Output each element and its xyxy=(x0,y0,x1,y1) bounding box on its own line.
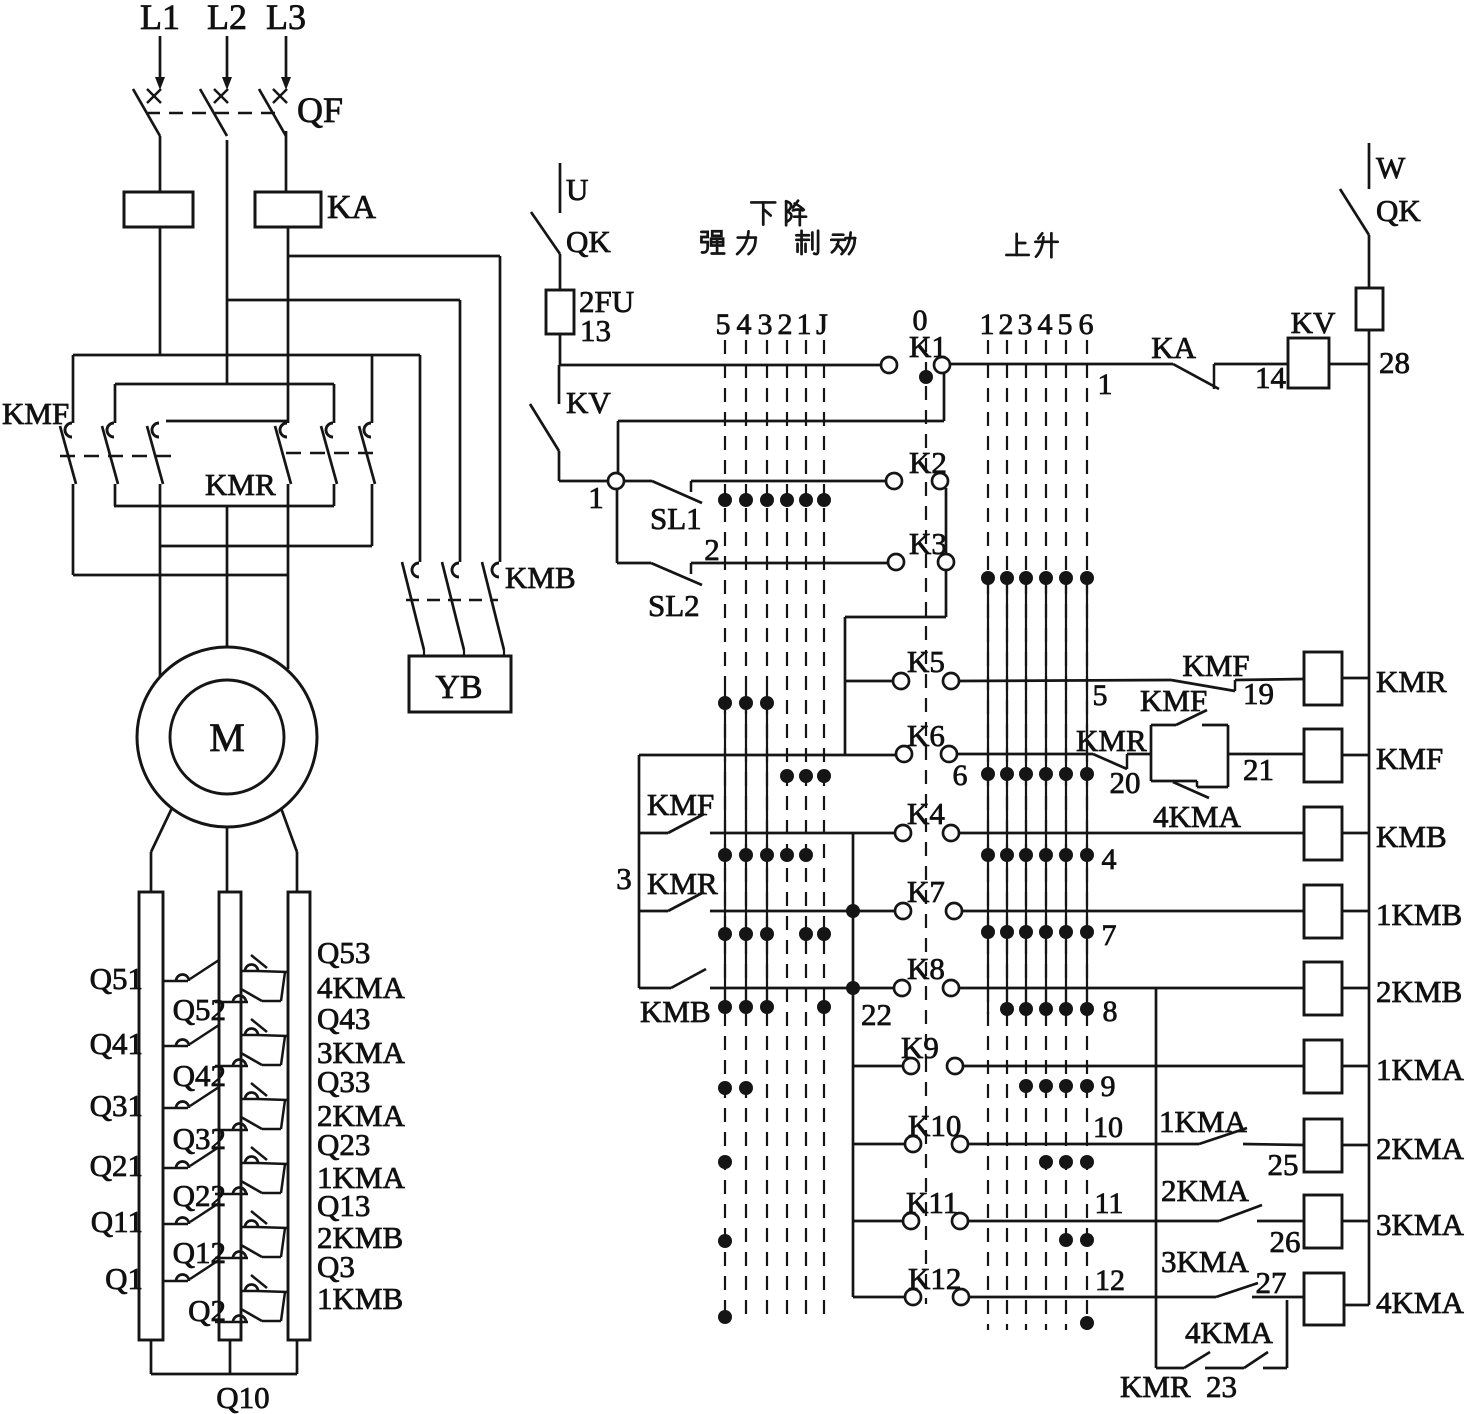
cam closed mark col 2 y=776 xyxy=(780,769,794,783)
wire K2 to K3 xyxy=(945,488,948,555)
cam closed mark col 1 y=776 xyxy=(799,769,813,783)
cam closed mark col 3 y=1007 xyxy=(760,1000,774,1014)
header 制动 (brake) xyxy=(796,231,818,254)
wire solid segment col x=1007 xyxy=(1006,572,1008,1014)
relay coil KMR xyxy=(1304,652,1342,705)
wire to K7 xyxy=(710,910,896,913)
wire SL2 to K3 xyxy=(691,562,889,565)
net W terminal xyxy=(1368,143,1371,189)
cam closed mark col J y=776 xyxy=(817,769,831,783)
cam closed mark col 3 y=855 xyxy=(760,848,774,862)
KMB linkage dashed xyxy=(406,599,498,602)
wire supply drop x=227 xyxy=(226,36,229,86)
cam closed mark col 6 y=1323 xyxy=(1080,1316,1094,1330)
tap switch Q43 xyxy=(242,1034,257,1037)
svg-text:KV: KV xyxy=(566,385,611,420)
cam closed mark col 3 y=703 xyxy=(760,696,774,710)
svg-text:KA: KA xyxy=(327,189,377,226)
tap switch Q41 xyxy=(163,1045,188,1048)
cam closed mark col 4 y=1086 xyxy=(1039,1079,1053,1093)
tap switch Q11 xyxy=(163,1223,188,1226)
svg-text:KMF: KMF xyxy=(1182,648,1249,683)
contactor KMF pole 2 xyxy=(114,384,117,423)
svg-text:KV: KV xyxy=(1291,305,1336,340)
svg-text:M: M xyxy=(209,715,245,760)
resistor bank element R-right xyxy=(288,892,310,1340)
svg-text:Q31: Q31 xyxy=(90,1088,143,1123)
wire jog left xyxy=(845,616,946,619)
svg-text:2KMB: 2KMB xyxy=(317,1220,403,1255)
svg-text:K1: K1 xyxy=(909,329,947,364)
svg-text:K9: K9 xyxy=(901,1030,939,1065)
controller contact K12 xyxy=(905,1289,921,1305)
svg-text:4: 4 xyxy=(1102,843,1117,876)
cam closed mark col 1 y=500 xyxy=(799,493,813,507)
svg-text:12: 12 xyxy=(1095,1264,1125,1297)
cam closed mark col 6 y=1086 xyxy=(1080,1079,1094,1093)
cam closed mark col 4 y=1162 xyxy=(1039,1155,1053,1169)
svg-text:10: 10 xyxy=(1093,1111,1123,1144)
wire K1 to node 1 c xyxy=(617,421,620,474)
tap switch Q53 xyxy=(242,970,257,973)
limit switch SL1 xyxy=(652,481,702,503)
wire 27 down xyxy=(1286,1300,1289,1368)
wire to K9 xyxy=(853,1065,904,1068)
cam closed mark col 3 y=1009 xyxy=(1019,1002,1033,1016)
wire K1 to node 1 b xyxy=(618,420,944,423)
svg-text:4KMA: 4KMA xyxy=(1376,1285,1464,1320)
cam closed mark col 5 y=1007 xyxy=(718,1000,732,1014)
svg-text:1: 1 xyxy=(588,480,604,515)
node 1 xyxy=(608,473,624,489)
wire branch to KMB right xyxy=(288,255,500,258)
svg-text:1KMA: 1KMA xyxy=(1159,1104,1247,1139)
cam closed mark col 4 y=703 xyxy=(739,696,753,710)
tap switch Q3 xyxy=(242,1290,257,1293)
svg-text:4: 4 xyxy=(1038,308,1053,341)
svg-text:1KMB: 1KMB xyxy=(1376,897,1462,932)
wire K1 row right (wire 1) xyxy=(949,363,1173,366)
svg-text:Q41: Q41 xyxy=(90,1026,143,1061)
header 强力 (strong) xyxy=(701,231,724,253)
wire down-branch bus xyxy=(1155,988,1158,1368)
cam closed mark col 2 y=855 xyxy=(780,848,794,862)
svg-text:4: 4 xyxy=(737,308,752,341)
contactor KMR pole 1 xyxy=(280,423,287,437)
wire K4 to KMB coil (wire 4) xyxy=(958,832,1304,835)
wire to K11 xyxy=(853,1220,904,1223)
svg-text:20: 20 xyxy=(1110,765,1141,800)
svg-text:3: 3 xyxy=(1018,308,1033,341)
cam closed mark col 3 y=1086 xyxy=(1019,1079,1033,1093)
tap switch Q13 xyxy=(242,1226,257,1229)
relay coil 1KMB xyxy=(1304,885,1342,938)
wire bottom bus Q10 xyxy=(151,1373,297,1376)
cam closed mark col 4 y=774 xyxy=(1039,767,1053,781)
svg-text:4KMA: 4KMA xyxy=(1185,1315,1273,1350)
motor M xyxy=(137,647,317,827)
wire solid segment col x=746 xyxy=(745,690,747,1014)
wire K5 to KMF interlock (wire 5) xyxy=(958,680,1171,681)
cam closed mark col J y=500 xyxy=(817,493,831,507)
relay coil 2KMB xyxy=(1304,962,1342,1015)
KMR linkage dashed xyxy=(286,452,380,455)
svg-text:23: 23 xyxy=(1206,1369,1237,1404)
svg-text:K7: K7 xyxy=(907,874,945,909)
svg-text:1KMB: 1KMB xyxy=(317,1281,403,1316)
svg-text:3: 3 xyxy=(616,861,632,896)
wire right bus xyxy=(1368,330,1371,1305)
svg-text:8: 8 xyxy=(1103,995,1118,1028)
controller contact K3 xyxy=(888,554,904,570)
contactor KMR pole 2 xyxy=(333,384,336,423)
cam closed mark col 2 y=1009 xyxy=(1000,1002,1014,1016)
cam closed mark col 4 y=855 xyxy=(1039,848,1053,862)
tap switch Q12 / contact 2KMB xyxy=(215,1257,248,1260)
cam closed mark col 5 y=1241 xyxy=(718,1234,732,1248)
cam closed mark col J y=934 xyxy=(817,927,831,941)
cam closed mark col 5 y=1009 xyxy=(1059,1002,1073,1016)
svg-text:K2: K2 xyxy=(909,445,947,480)
cam closed mark col 5 y=934 xyxy=(718,927,732,941)
svg-text:1KMA: 1KMA xyxy=(1376,1052,1464,1087)
cam closed mark col 6 y=1240 xyxy=(1080,1233,1094,1247)
svg-text:KMF: KMF xyxy=(2,396,69,431)
cam closed mark col 6 y=1009 xyxy=(1080,1002,1094,1016)
svg-text:11: 11 xyxy=(1095,1187,1124,1220)
wire L1 to KMF top bar xyxy=(159,227,162,355)
controller contact K6 xyxy=(896,746,912,762)
relay coil 1KMA xyxy=(1304,1040,1342,1093)
wire K10 row xyxy=(967,1143,1199,1146)
cam closed mark col 6 y=855 xyxy=(1080,848,1094,862)
svg-text:L2: L2 xyxy=(207,0,247,37)
cam closed mark col 1 y=578 xyxy=(981,571,995,585)
cam closed mark col J y=1007 xyxy=(817,1000,831,1014)
wire node1 to SL1 xyxy=(623,480,652,483)
tap switch Q51 xyxy=(163,980,188,983)
overload heater element left xyxy=(124,192,193,227)
wire motor to R3 xyxy=(281,808,297,852)
svg-text:Q52: Q52 xyxy=(173,992,226,1027)
wire to K10 xyxy=(853,1143,906,1146)
tap switch Q52 / contact 4KMA xyxy=(215,1001,248,1004)
svg-text:Q32: Q32 xyxy=(173,1121,226,1156)
tap switch Q2 / contact 1KMB xyxy=(215,1321,248,1324)
svg-text:Q43: Q43 xyxy=(317,1001,370,1036)
wire solid segment col x=1026 xyxy=(1025,572,1027,1014)
tap switch Q23 xyxy=(242,1162,257,1165)
controller contact K4 xyxy=(895,825,911,841)
svg-text:SL2: SL2 xyxy=(648,588,700,623)
cam closed mark col 5 y=932 xyxy=(1059,925,1073,939)
svg-text:Q21: Q21 xyxy=(90,1148,143,1183)
wire K7 to 1KMB coil (wire 7) xyxy=(961,910,1304,913)
svg-text:2KMB: 2KMB xyxy=(1376,974,1462,1009)
svg-text:Q51: Q51 xyxy=(90,961,143,996)
cam closed mark col 5 y=1162 xyxy=(1059,1155,1073,1169)
svg-text:6: 6 xyxy=(1079,308,1094,341)
svg-text:Q10: Q10 xyxy=(216,1380,269,1414)
svg-text:2KMA: 2KMA xyxy=(1376,1131,1464,1166)
wire R1 bottom xyxy=(150,1340,153,1374)
wire motor to R2 xyxy=(226,827,229,892)
tap switch Q21 xyxy=(163,1167,188,1170)
svg-text:Q12: Q12 xyxy=(173,1235,226,1270)
wire bottom branch a xyxy=(1156,1367,1184,1370)
QF linkage dashed xyxy=(146,112,278,115)
controller contact K2 xyxy=(886,473,902,489)
fuse (W line) xyxy=(1356,288,1383,330)
svg-text:SL1: SL1 xyxy=(650,501,702,536)
svg-text:1: 1 xyxy=(1098,368,1113,401)
wire supply drop x=286 xyxy=(285,36,288,86)
cam closed mark col 6 y=578 xyxy=(1080,571,1094,585)
relay coil 2KMA xyxy=(1304,1119,1342,1172)
KMF linkage dashed xyxy=(60,455,174,458)
wire solid segment col x=767 xyxy=(766,690,768,1014)
wire branch to KMB middle xyxy=(227,299,460,302)
wire bar W phase xyxy=(73,574,287,577)
cam closed mark col 1 y=855 xyxy=(799,848,813,862)
svg-text:28: 28 xyxy=(1379,345,1410,380)
svg-text:22: 22 xyxy=(861,997,892,1032)
wire to K8 xyxy=(710,987,896,990)
relay contact KMR (bottom branch) xyxy=(1244,1352,1268,1368)
svg-text:7: 7 xyxy=(1102,919,1117,952)
cam closed mark col 1 y=774 xyxy=(981,767,995,781)
wire K11 row xyxy=(967,1220,1219,1223)
cam closed mark col 4 y=855 xyxy=(739,848,753,862)
cam closed mark col 4 y=1009 xyxy=(1039,1002,1053,1016)
controller contact K1 xyxy=(881,357,897,373)
cam closed mark col 1 y=855 xyxy=(981,848,995,862)
svg-text:KMB: KMB xyxy=(1376,819,1447,854)
cam closed mark col 4 y=932 xyxy=(1039,925,1053,939)
svg-text:Q42: Q42 xyxy=(173,1058,226,1093)
fuse 2FU xyxy=(546,290,574,334)
cam closed mark col 5 y=1162 xyxy=(718,1155,732,1169)
cam closed mark col 5 y=1240 xyxy=(1059,1233,1073,1247)
svg-text:KA: KA xyxy=(1151,330,1196,365)
svg-text:1: 1 xyxy=(980,308,995,341)
cam closed mark col 5 y=1086 xyxy=(1059,1079,1073,1093)
controller contact K9 xyxy=(903,1058,919,1074)
wire down to KMB left pole xyxy=(419,355,422,562)
header 上升 (raise) xyxy=(1006,234,1028,255)
wire K12 row xyxy=(968,1296,1216,1299)
cam closed mark col 6 y=932 xyxy=(1080,925,1094,939)
wire to K5 xyxy=(845,680,894,683)
contactor KMR pole 3 xyxy=(364,423,371,437)
wire K1 to node 1 a xyxy=(943,372,946,421)
svg-text:3KMA: 3KMA xyxy=(1161,1244,1249,1279)
svg-text:2KMA: 2KMA xyxy=(1161,1173,1249,1208)
svg-text:QK: QK xyxy=(1376,193,1421,228)
contactor KMB pole x=460 xyxy=(452,563,459,577)
cam closed mark col 5 y=855 xyxy=(718,848,732,862)
svg-text:K5: K5 xyxy=(907,644,945,679)
contactor KMF pole 1 xyxy=(72,355,75,423)
resistor bank element R-left xyxy=(139,892,163,1340)
cam closed mark col 1 y=934 xyxy=(799,927,813,941)
wire down to KMB middle pole xyxy=(459,300,462,562)
svg-text:14: 14 xyxy=(1255,360,1287,395)
wire solid segment col x=1066 xyxy=(1065,572,1067,1014)
wire R2 bottom xyxy=(229,1340,232,1374)
svg-text:5: 5 xyxy=(1093,679,1108,712)
cam closed mark col 4 y=934 xyxy=(739,927,753,941)
svg-text:Q22: Q22 xyxy=(173,1178,226,1213)
cam closed mark col 4 y=1088 xyxy=(739,1081,753,1095)
cam closed mark col 5 y=1317 xyxy=(718,1310,732,1324)
tap switch Q22 / contact 1KMA xyxy=(215,1193,248,1196)
wire left bus (node 3) xyxy=(638,755,641,988)
wire to K4 xyxy=(710,832,896,835)
wire L3 to KA coil xyxy=(285,131,288,192)
contactor KMB pole x=500 xyxy=(492,563,499,577)
breaker QF pole at x=160 xyxy=(147,89,161,103)
svg-text:KMR: KMR xyxy=(1376,664,1447,699)
cam closed mark col 5 y=578 xyxy=(1059,571,1073,585)
svg-text:L3: L3 xyxy=(266,0,306,37)
wire solid segment col x=1046 xyxy=(1045,572,1047,1014)
cam closed mark col 2 y=774 xyxy=(1000,767,1014,781)
cam closed mark col 5 y=1088 xyxy=(718,1081,732,1095)
breaker QF pole at x=286 xyxy=(273,89,287,103)
svg-text:3KMA: 3KMA xyxy=(317,1035,405,1070)
header 下降 (lower) xyxy=(751,202,775,224)
cam closed mark col 3 y=855 xyxy=(1019,848,1033,862)
svg-text:K12: K12 xyxy=(908,1261,961,1296)
relay coil KV xyxy=(1288,338,1329,388)
cam closed mark col 2 y=932 xyxy=(1000,925,1014,939)
wire solid segment col x=988 xyxy=(987,572,989,1014)
cam closed mark col 1 y=932 xyxy=(981,925,995,939)
svg-text:YB: YB xyxy=(435,669,482,706)
net U terminal xyxy=(559,163,562,213)
svg-text:3KMA: 3KMA xyxy=(1376,1207,1464,1242)
svg-text:Q11: Q11 xyxy=(91,1204,143,1239)
relay coil 4KMA xyxy=(1304,1273,1344,1325)
wire bottom branch c xyxy=(1263,1367,1287,1370)
wire L1 to heater xyxy=(159,136,162,192)
svg-text:6: 6 xyxy=(953,759,968,792)
svg-text:L1: L1 xyxy=(140,0,180,37)
wire to motor V xyxy=(226,506,229,647)
wire K9 to 1KMA coil (wire 9) xyxy=(962,1065,1304,1068)
wire SL1 to K2 xyxy=(691,480,887,483)
svg-text:QF: QF xyxy=(297,90,343,130)
wire bottom branch b xyxy=(1205,1367,1244,1370)
wire to node 1 xyxy=(559,480,609,483)
svg-text:K11: K11 xyxy=(906,1185,958,1220)
wire to K12 xyxy=(853,1296,906,1299)
cam closed mark col 6 y=1162 xyxy=(1080,1155,1094,1169)
wire K1 row left xyxy=(560,364,882,367)
controller contact K5 xyxy=(893,673,909,689)
controller contact K10 xyxy=(905,1136,921,1152)
svg-text:5: 5 xyxy=(716,308,731,341)
svg-text:K8: K8 xyxy=(907,951,945,986)
junction K8 row / center bus xyxy=(846,981,860,995)
contactor KMB pole x=420 xyxy=(412,563,419,577)
svg-text:Q53: Q53 xyxy=(317,935,370,970)
relay contact 4KMA (interlock) xyxy=(1173,782,1209,798)
svg-text:K3: K3 xyxy=(909,526,947,561)
svg-text:Q2: Q2 xyxy=(188,1293,226,1328)
wire center bus xyxy=(852,833,855,1297)
wire bar U phase xyxy=(160,545,372,548)
svg-text:21: 21 xyxy=(1243,752,1274,787)
cam closed mark col 2 y=578 xyxy=(1000,571,1014,585)
wire crossover bar xyxy=(166,420,288,423)
svg-text:4KMA: 4KMA xyxy=(1153,799,1241,834)
wire solid segment col x=1087 xyxy=(1086,572,1088,1014)
svg-text:QK: QK xyxy=(566,224,611,259)
svg-text:KMR: KMR xyxy=(647,866,718,901)
svg-text:KMR: KMR xyxy=(1120,1369,1191,1404)
cam closed mark col 3 y=934 xyxy=(760,927,774,941)
svg-text:KMB: KMB xyxy=(505,560,576,595)
wire K3 down xyxy=(945,569,948,617)
svg-text:K6: K6 xyxy=(907,718,945,753)
limit switch SL2 xyxy=(651,563,702,585)
breaker QF pole at x=227 xyxy=(214,89,228,103)
svg-text:2KMA: 2KMA xyxy=(317,1098,405,1133)
wire drop to KMR pole 3 xyxy=(371,355,374,423)
wire to SL2 xyxy=(617,562,651,565)
wire node1 down xyxy=(616,488,619,563)
svg-text:5: 5 xyxy=(1058,308,1073,341)
svg-text:3: 3 xyxy=(758,308,773,341)
overload relay KA xyxy=(255,192,321,227)
svg-text:K4: K4 xyxy=(907,796,945,831)
cam closed mark col 3 y=500 xyxy=(760,493,774,507)
svg-text:19: 19 xyxy=(1243,676,1274,711)
wire down to K5/K6 xyxy=(844,617,847,754)
wire supply drop x=160 xyxy=(159,36,162,86)
controller contact K7 xyxy=(895,903,911,919)
cam closed mark col 4 y=578 xyxy=(1039,571,1053,585)
cam closed mark col 6 y=774 xyxy=(1080,767,1094,781)
relay coil KMB xyxy=(1304,807,1342,860)
svg-text:KMB: KMB xyxy=(640,994,711,1029)
cam closed mark col 5 y=855 xyxy=(1059,848,1073,862)
svg-text:W: W xyxy=(1376,150,1406,185)
svg-text:KMF: KMF xyxy=(647,787,714,822)
svg-text:KMF: KMF xyxy=(1140,683,1207,718)
svg-text:26: 26 xyxy=(1270,1224,1301,1259)
svg-text:1: 1 xyxy=(797,308,812,341)
tap switch Q42 / contact 3KMA xyxy=(215,1065,248,1068)
svg-text:2: 2 xyxy=(778,308,793,341)
svg-text:4KMA: 4KMA xyxy=(317,970,405,1005)
relay coil KMF xyxy=(1304,729,1342,782)
brake YB xyxy=(409,656,511,712)
contactor KMF pole 3 xyxy=(152,423,159,437)
svg-text:KMR: KMR xyxy=(205,467,276,502)
cam closed mark col 0 (K1) xyxy=(919,370,933,384)
wire KMR bottom bar xyxy=(114,505,334,508)
wire KA to KMR pole xyxy=(287,227,290,423)
resistor bank element R-middle xyxy=(219,892,241,1340)
wire R3 bottom xyxy=(296,1340,299,1374)
svg-text:K10: K10 xyxy=(908,1108,961,1143)
cam closed mark col 2 y=855 xyxy=(1000,848,1014,862)
controller contact K8 xyxy=(894,980,910,996)
cam closed mark col 3 y=932 xyxy=(1019,925,1033,939)
